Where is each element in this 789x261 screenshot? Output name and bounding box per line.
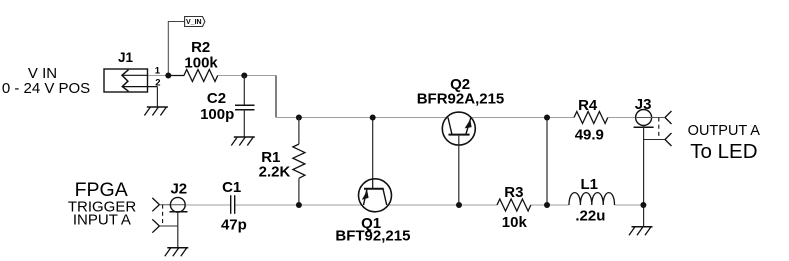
wire: vertical link x=547 — [546, 118, 548, 206]
connector J2 — [152, 197, 187, 247]
svg-text:J3: J3 — [635, 96, 652, 113]
label R3 — [502, 184, 528, 231]
capacitor C2 — [235, 76, 255, 138]
svg-text:47p: 47p — [221, 216, 247, 233]
pin 2 label — [155, 77, 160, 88]
node: junction bottom rail / Q2 base — [456, 202, 462, 208]
svg-text:R2: R2 — [191, 39, 210, 56]
label R4 — [575, 97, 604, 144]
resistor R2 — [168, 70, 217, 82]
svg-text:C1: C1 — [222, 179, 241, 196]
node: junction middle rail x=547 — [544, 115, 550, 121]
connector J1 — [104, 69, 157, 107]
svg-text:2.2K: 2.2K — [259, 164, 291, 181]
node: junction middle rail / R1 top — [296, 115, 302, 121]
svg-text:V_IN: V_IN — [186, 19, 202, 26]
label R1 — [259, 149, 291, 181]
svg-text:100k: 100k — [184, 55, 218, 72]
svg-text:49.9: 49.9 — [575, 127, 604, 144]
svg-text:10k: 10k — [502, 214, 528, 231]
svg-text:J2: J2 — [170, 181, 187, 198]
text: OUTPUT A description — [688, 123, 761, 163]
svg-text:BFT92,215: BFT92,215 — [335, 227, 410, 244]
transistor Q2 — [442, 112, 475, 205]
ground (C2) — [231, 137, 255, 146]
svg-text:INPUT A: INPUT A — [73, 212, 131, 229]
resistor R4 — [574, 112, 608, 124]
wire: middle rail — [276, 117, 636, 119]
svg-text:L1: L1 — [580, 176, 598, 193]
label L1 — [575, 176, 605, 224]
svg-text:R3: R3 — [504, 184, 523, 201]
pin 1 label — [155, 66, 161, 77]
text: FPGA trigger description — [68, 179, 137, 229]
svg-text:C2: C2 — [207, 90, 226, 107]
svg-text:1: 1 — [155, 66, 161, 77]
label J3 — [635, 96, 652, 113]
svg-text:0 - 24 V POS: 0 - 24 V POS — [2, 80, 90, 97]
wire: top rail J1 pin1 to corner — [148, 75, 277, 77]
ground (J1 pin2) — [144, 107, 168, 116]
ground (J3 shell) — [629, 227, 653, 236]
resistor R3 — [497, 199, 531, 211]
label C1 — [221, 179, 247, 233]
capacitor C1 — [231, 195, 235, 214]
label J2 — [170, 181, 187, 198]
net flag V_IN — [168, 17, 205, 76]
node: junction J1 pin1 / V_IN / R2 — [165, 73, 171, 79]
label R2 — [184, 39, 218, 72]
wire: bottom rail — [185, 204, 644, 206]
label Q1 — [335, 215, 410, 244]
connector J3 — [634, 110, 672, 227]
svg-text:2: 2 — [155, 77, 160, 88]
label J1 — [118, 50, 134, 65]
svg-text:.22u: .22u — [575, 208, 605, 225]
node: junction bottom rail / R1 bottom — [296, 202, 302, 208]
wire: corner vertical down to middle rail — [275, 76, 277, 118]
svg-text:J1: J1 — [118, 50, 134, 65]
node: junction middle rail / Q1 base — [370, 115, 376, 121]
text: V IN input description — [2, 65, 90, 97]
transistor Q1 — [359, 118, 392, 212]
svg-text:OUTPUT A: OUTPUT A — [688, 123, 761, 139]
ground (J2 shell) — [165, 248, 189, 257]
node: junction R2 / C2 — [241, 73, 247, 79]
label C2 — [200, 90, 234, 123]
node: junction bottom rail / J3 ground leg — [640, 202, 646, 208]
svg-text:To LED: To LED — [690, 140, 757, 163]
svg-text:100p: 100p — [200, 106, 234, 123]
inductor L1 — [569, 193, 615, 205]
label Q2 — [417, 76, 505, 107]
resistor R1 — [293, 118, 305, 206]
svg-text:R4: R4 — [578, 97, 598, 114]
svg-text:FPGA: FPGA — [75, 179, 128, 201]
svg-text:BFR92A,215: BFR92A,215 — [417, 90, 505, 107]
node: junction bottom rail x=547 — [544, 202, 550, 208]
